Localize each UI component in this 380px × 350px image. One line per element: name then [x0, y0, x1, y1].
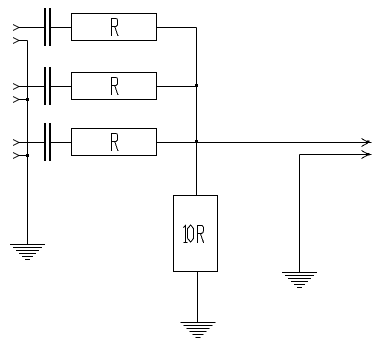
output arrow 2 head	[362, 151, 372, 159]
wire R1 to node N1 (right bus)	[157, 27, 197, 29]
wire C2 to R2	[50, 86, 72, 88]
wire R4 to bottom ground	[197, 272, 199, 323]
label R of R3	[112, 134, 118, 152]
label R of R2	[112, 78, 118, 96]
ground right (output 2 return)	[282, 273, 317, 288]
input connector J2 signal pin	[13, 84, 19, 90]
label R of R1	[112, 19, 118, 37]
resistor R1	[72, 14, 157, 41]
left ground bus wire	[27, 41, 29, 245]
resistor R3	[72, 129, 157, 156]
capacitor C2	[44, 67, 51, 105]
junction dot on left bus at J2 ground	[26, 98, 29, 101]
wire J2 to C2	[19, 86, 44, 88]
wire J3 to C3	[19, 142, 44, 144]
capacitor C3	[44, 123, 51, 161]
node N1 right vertical bus wire	[196, 28, 198, 196]
input connector J2 ground pin	[13, 97, 19, 103]
wire C3 to R3	[50, 142, 72, 144]
input connector J3 ground pin	[13, 153, 19, 159]
wire J1 ground pin to left ground bus	[19, 40, 28, 42]
wire C1 to R1	[50, 27, 72, 29]
input connector J1 ground pin	[13, 38, 19, 44]
ground bottom (under R4)	[181, 323, 216, 338]
input connector J3 signal pin	[13, 140, 19, 146]
resistor R2	[72, 73, 157, 100]
wire J1 to C1	[19, 27, 44, 29]
resistor R4 10R	[174, 196, 218, 272]
label 10R of R4	[183, 225, 203, 243]
junction dot N1 at R3 row	[195, 140, 198, 143]
wire J3 ground pin to left ground bus	[19, 155, 28, 157]
capacitor C1	[44, 8, 51, 46]
wire output 2	[300, 154, 370, 156]
wire J2 ground pin to left ground bus	[19, 99, 28, 101]
wire R3 to node N1 and output 1	[157, 142, 370, 144]
input connector J1 signal pin	[13, 25, 19, 31]
junction dot on left bus at J3 ground	[26, 154, 29, 157]
wire R2 to node N1 (right bus)	[157, 86, 197, 88]
output arrow 1 head	[362, 139, 372, 147]
junction dot N1 at R2 row	[195, 84, 198, 87]
wire output 2 to right ground	[299, 155, 301, 273]
ground left	[10, 245, 45, 260]
